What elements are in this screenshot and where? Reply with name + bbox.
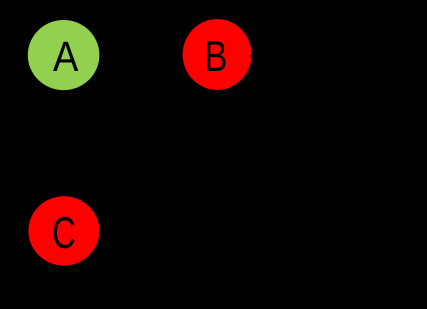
- label C: [54, 217, 75, 249]
- edge stub at node B right: [249, 55, 259, 57]
- node A: [28, 20, 100, 90]
- node B: [183, 19, 252, 90]
- label B: [207, 41, 225, 71]
- label A: [53, 42, 78, 71]
- node C: [28, 196, 99, 265]
